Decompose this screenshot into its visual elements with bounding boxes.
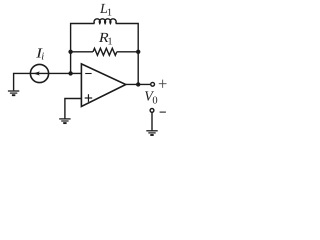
junction dot: inverting input node — [68, 71, 72, 75]
ground: left (input source) — [8, 91, 19, 95]
ground: op-amp non-inverting — [59, 119, 70, 123]
plus sign at V0 terminal — [159, 80, 167, 88]
wire: R1 branch left lead — [71, 51, 93, 53]
wire: input line from left ground to op-amp inverting input — [14, 73, 82, 90]
svg-text:0: 0 — [152, 95, 157, 106]
wire: left feedback rail — [71, 24, 95, 74]
terminal: V0 plus (open circle) — [151, 82, 155, 86]
wire: R1 branch right lead — [117, 51, 138, 53]
terminal: V0 minus (open circle) — [150, 109, 154, 113]
inductor L1 — [94, 19, 116, 24]
svg-text:1: 1 — [107, 36, 112, 47]
wire: minus terminal to ground — [151, 112, 153, 130]
resistor R1 — [93, 48, 117, 55]
wire: op-amp output — [126, 83, 151, 85]
junction dot: R1 left — [68, 50, 72, 54]
junction dot: output node — [136, 82, 140, 86]
current source I_i — [30, 64, 48, 82]
minus sign inside op-amp — [85, 73, 91, 75]
ground: output minus terminal — [146, 131, 157, 135]
arrowhead of current source — [33, 71, 40, 75]
plus sign inside op-amp — [85, 94, 93, 102]
wire: top right to right rail — [116, 24, 139, 85]
op-amp U1 — [81, 64, 125, 107]
svg-text:1: 1 — [107, 8, 112, 19]
junction dot: R1 right — [136, 50, 140, 54]
minus sign at V0 terminal — [160, 111, 166, 113]
wire: op-amp non-inverting input — [65, 99, 82, 119]
svg-text:i: i — [41, 52, 44, 63]
